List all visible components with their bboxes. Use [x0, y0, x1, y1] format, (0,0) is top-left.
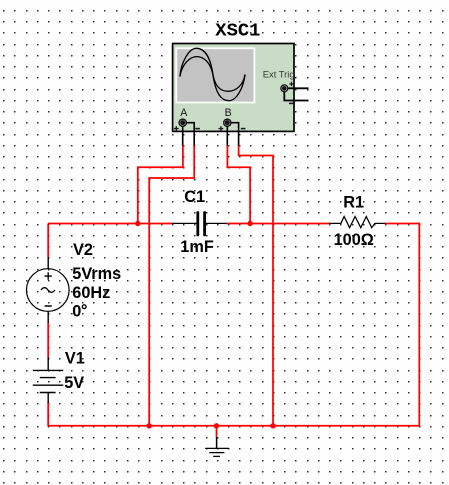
wire top rail left (net to C1): [48, 223, 173, 225]
scope sine wave outer trace: [180, 48, 245, 100]
oscilloscope screen: [175, 47, 255, 103]
terminal B: [223, 118, 232, 127]
wire scope B right: [239, 145, 273, 426]
plus mark terminal B: [219, 126, 224, 131]
junction node at C1 left: [135, 221, 140, 226]
svg-text:60Hz: 60Hz: [72, 284, 110, 302]
wire ground stem red: [216, 426, 218, 437]
scope lead A vertical (black): [182, 124, 184, 146]
minus mark V2: [45, 305, 52, 307]
scope lead A right stub (black): [185, 123, 194, 146]
sine mark V2: [41, 288, 55, 293]
wire scope B left: [227, 145, 250, 224]
plus mark terminal A: [174, 126, 179, 131]
svg-text:XSC1: XSC1: [215, 19, 260, 41]
svg-text:V1: V1: [65, 350, 85, 368]
junction node bottom A: [147, 423, 152, 428]
capacitor C1 plates: [196, 211, 206, 236]
wire V1 to bottom rail: [47, 402, 49, 427]
svg-text:5V: 5V: [64, 374, 84, 392]
oscilloscope XSC1 body: [173, 44, 294, 132]
scope lead B vertical (black): [226, 124, 228, 146]
minus mark Ext Trig: [289, 102, 294, 104]
terminal A: [178, 118, 187, 127]
ground: [205, 437, 229, 456]
plus mark V2: [45, 272, 52, 279]
junction node bottom B: [270, 423, 275, 428]
wire bottom rail: [48, 425, 420, 427]
battery V1 leads: [47, 357, 49, 403]
scope lead B right stub (black): [230, 123, 239, 146]
scope sine wave inner trace: [180, 57, 245, 92]
svg-text:C1: C1: [184, 188, 205, 206]
battery V1 plates: [33, 370, 64, 392]
svg-text:V2: V2: [73, 241, 93, 259]
wire left branch V2 top: [47, 224, 49, 258]
wire top rail right (R1 to corner): [385, 223, 420, 426]
AC source V2 leads: [47, 257, 49, 323]
scope Ext Trig stub top: [287, 87, 309, 89]
minus mark terminal B: [241, 128, 246, 130]
svg-text:Ext Trig.: Ext Trig.: [263, 68, 297, 79]
junction node bottom ground: [214, 423, 219, 428]
wire V2 to V1: [47, 323, 49, 358]
svg-text:R1: R1: [343, 194, 364, 212]
svg-text:A: A: [180, 107, 188, 119]
scope Ext Trig stub bottom: [284, 91, 308, 101]
wire scope A right: [149, 145, 194, 426]
junction node at C1 right: [247, 221, 252, 226]
svg-text:100Ω: 100Ω: [334, 231, 374, 249]
svg-text:1mF: 1mF: [180, 238, 214, 256]
minus mark terminal A: [195, 128, 200, 130]
AC source V2 circle: [27, 269, 70, 312]
resistor R1: [329, 217, 385, 228]
wire scope A left: [138, 145, 183, 224]
svg-text:B: B: [225, 107, 232, 119]
plus mark Ext Trig: [289, 82, 293, 86]
wire top rail middle (C1 to R1): [227, 223, 331, 225]
svg-text:0: 0: [72, 302, 81, 320]
svg-text:5Vrms: 5Vrms: [72, 265, 121, 283]
terminal Ext Trig: [280, 84, 288, 92]
capacitor C1 leads: [172, 222, 227, 224]
